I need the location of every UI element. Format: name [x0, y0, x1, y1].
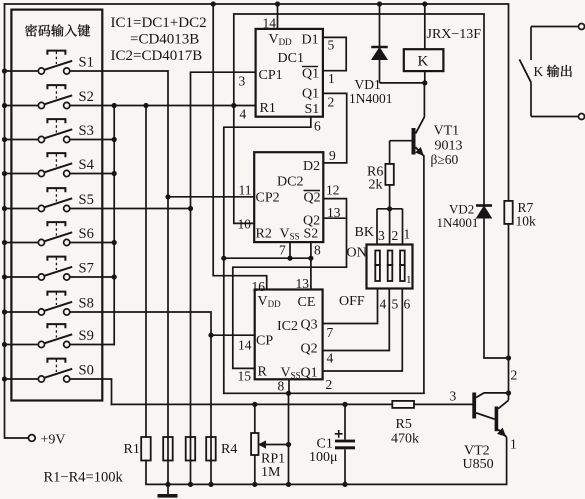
svg-text:15: 15	[238, 369, 252, 384]
diode VD1 1N4001	[371, 4, 425, 83]
node left rail / S9 row	[2, 342, 7, 347]
wire IC2 Vss pin8 down	[288, 379, 290, 393]
switch S7	[5, 257, 73, 281]
node junction reset bus / S3 row	[112, 137, 117, 142]
keypad box	[11, 10, 102, 401]
flip-flop DC1	[256, 29, 323, 117]
svg-text:BK: BK	[355, 225, 374, 240]
svg-text:13: 13	[327, 205, 341, 220]
wire S8 row down to IC2 CP, down to R4	[70, 312, 211, 461]
switch S0	[5, 359, 73, 383]
wire S1 row to CP2 junction, down to R2	[70, 71, 168, 461]
node junction R1 column / S2 row	[143, 103, 148, 108]
svg-text:DC2: DC2	[277, 175, 303, 190]
overline of Q2bar	[304, 190, 321, 192]
wire ground drop to bottom rail	[288, 393, 290, 484]
wire second rail (reset net)	[234, 14, 484, 223]
node junction ground link / DC2 pin7	[287, 256, 292, 261]
switch S5	[5, 188, 73, 211]
switch S1	[5, 51, 73, 75]
node left rail / S1 row	[2, 68, 7, 73]
wire S2 row to DC1 pin 4 (R1)	[70, 105, 256, 107]
wire S0 row down to trigger rail	[70, 379, 112, 404]
wire S9 row to reset bus	[70, 344, 114, 346]
wire DC2 pin8 S2 down to IC2 CE pin13	[310, 242, 312, 289]
wire IC2 pin14 CP to S8/R4 column	[211, 334, 255, 336]
svg-text:6: 6	[404, 297, 411, 312]
svg-text:1: 1	[328, 71, 335, 86]
svg-text:S4: S4	[79, 157, 95, 173]
switch S9	[5, 324, 73, 348]
node junction trigger rail / RP1	[252, 402, 257, 407]
switch S8	[5, 292, 73, 316]
node junction reset rail / S2 row	[231, 103, 236, 108]
node junction R6 / BK bracket	[387, 206, 392, 211]
diode VD2 1N4001	[476, 14, 509, 358]
svg-text:ON: ON	[347, 246, 367, 261]
svg-text:CP: CP	[256, 334, 273, 349]
svg-text:4: 4	[327, 351, 334, 366]
svg-text:β≥60: β≥60	[431, 152, 459, 167]
svg-text:CE: CE	[298, 295, 316, 310]
svg-text:470k: 470k	[391, 432, 419, 447]
svg-text:K: K	[534, 64, 544, 79]
svg-text:9: 9	[329, 148, 336, 163]
node junction ground rail / R4	[208, 482, 213, 487]
svg-text:1: 1	[510, 437, 517, 452]
wire ground bus to VT1 emitter	[224, 392, 424, 394]
svg-text:1: 1	[406, 274, 412, 286]
node junction top rail / VD1	[377, 1, 382, 6]
wire ground link under DC2	[224, 257, 311, 259]
svg-text:K: K	[418, 54, 429, 70]
node junction Vss bus / ground drop	[286, 391, 291, 396]
node left rail / S2 row	[2, 103, 7, 108]
potentiometer RP1 1M	[251, 404, 288, 484]
svg-text:10: 10	[238, 217, 252, 232]
svg-text:3: 3	[450, 389, 457, 404]
node junction reset bus / S2 row	[112, 103, 117, 108]
node junction reset bus / S7 row	[112, 274, 117, 279]
node junction ground rail / RP1	[252, 482, 257, 487]
svg-text:S3: S3	[79, 123, 94, 139]
wire CP1 of DC1 to junction with S5, down to R3	[191, 72, 256, 460]
svg-text:S7: S7	[79, 261, 94, 277]
svg-text:14: 14	[238, 338, 252, 353]
svg-text:S6: S6	[79, 226, 94, 242]
node junction reset bus / S6 row	[112, 240, 117, 245]
svg-text:5: 5	[328, 38, 335, 53]
node left rail / S8 row	[2, 309, 7, 314]
svg-text:R1: R1	[124, 442, 140, 457]
svg-text:16: 16	[252, 279, 266, 294]
svg-text:IC2: IC2	[277, 319, 298, 334]
svg-text:14: 14	[263, 16, 277, 31]
wire IC2 Q3 pin7 to BK pin4	[323, 289, 378, 324]
resistor R4 100k	[206, 437, 216, 461]
transistor VT1 9013	[390, 83, 425, 393]
DIP switch BK	[367, 209, 413, 289]
svg-text:OFF: OFF	[339, 294, 365, 309]
svg-text:13: 13	[296, 276, 310, 291]
switch K output	[519, 24, 584, 120]
svg-text:=CD4013B: =CD4013B	[130, 32, 199, 48]
svg-text:2: 2	[328, 95, 335, 110]
svg-text:1: 1	[404, 227, 411, 242]
svg-text:R5: R5	[396, 417, 412, 432]
node junction top rail / IC2 Vdd wire	[211, 1, 216, 6]
wire Q1 pin2 to D2 pin9	[323, 93, 347, 162]
svg-text:R: R	[258, 365, 268, 380]
svg-text:DC1: DC1	[278, 51, 304, 66]
svg-text:Q1: Q1	[302, 67, 319, 82]
svg-text:8: 8	[278, 379, 285, 394]
svg-text:1N4001: 1N4001	[349, 91, 393, 106]
svg-text:CP1: CP1	[259, 68, 283, 83]
svg-text:4: 4	[380, 297, 387, 312]
node left rail / S5 row	[2, 206, 7, 211]
svg-text:Q1: Q1	[302, 87, 319, 102]
node left rail / S4 row	[2, 171, 7, 176]
wire S4 row to reset bus	[70, 173, 114, 175]
node junction ground link / DC2 pin8	[308, 256, 313, 261]
node junction VT2 collector node	[506, 390, 511, 395]
svg-text:VDD: VDD	[269, 32, 293, 47]
resistor R7 10k	[504, 4, 512, 400]
wire Q2 pin13 stub	[323, 217, 344, 219]
svg-text:S8: S8	[79, 296, 94, 312]
svg-text:Q2: Q2	[301, 342, 318, 357]
wire Q2bar pin12 to IC2 R pin15 loop	[233, 199, 347, 369]
ground	[167, 484, 169, 494]
node junction ground rail / R2	[165, 482, 170, 487]
node junction trigger rail / C1	[342, 402, 347, 407]
svg-text:IC2=CD4017B: IC2=CD4017B	[111, 48, 203, 64]
keypad title 密码输入键	[25, 24, 90, 36]
svg-text:VD1: VD1	[355, 77, 381, 92]
wire IC2 Q2 pin4 to BK pin5	[323, 289, 390, 351]
svg-text:R1: R1	[260, 101, 276, 116]
svg-text:S2: S2	[304, 227, 319, 242]
svg-text:IC1=DC1+DC2: IC1=DC1+DC2	[111, 15, 207, 31]
svg-text:3: 3	[378, 228, 385, 243]
svg-text:D1: D1	[302, 33, 319, 48]
svg-text:4: 4	[240, 107, 247, 122]
svg-text:VT1: VT1	[434, 124, 460, 139]
wire S6 row to reset bus	[70, 242, 114, 244]
node junction VD2 / R7 wire	[506, 355, 511, 360]
svg-text:U850: U850	[463, 457, 494, 472]
svg-text:6: 6	[314, 119, 321, 134]
terminal +9V	[28, 435, 35, 442]
svg-text:5: 5	[392, 297, 399, 312]
switch S3	[5, 119, 73, 142]
wire CP2 of DC2 to S1 column junction	[168, 196, 254, 198]
node junction CP2 line / S1 column	[165, 194, 170, 199]
switch S4	[5, 153, 73, 176]
svg-text:10k: 10k	[516, 214, 537, 229]
node junction top rail / DC1 pin14	[275, 1, 280, 6]
svg-text:S1: S1	[305, 102, 320, 117]
svg-text:7: 7	[279, 243, 286, 258]
relay K JRX-13F	[424, 4, 426, 83]
resistor R5 470k	[392, 401, 414, 408]
svg-text:S0: S0	[79, 363, 94, 379]
capacitor C1 100u	[335, 404, 355, 484]
wire left +9V rail	[5, 4, 29, 438]
node left rail / S0 row	[2, 376, 7, 381]
resistor R2 100k	[163, 437, 173, 461]
svg-text:Q3: Q3	[301, 318, 318, 333]
wire reset bus (S2-S9 column)	[113, 106, 115, 345]
wire DC1 pin14 Vdd from top rail	[277, 4, 279, 29]
svg-text:2: 2	[511, 368, 518, 383]
node junction top rail / relay K	[422, 1, 427, 6]
wire S7 row to reset bus	[70, 276, 114, 278]
wire trigger rail (S0 / C1 / RP1 / R5)	[112, 403, 473, 405]
wire S3 row to reset bus	[70, 139, 114, 141]
svg-text:2k: 2k	[369, 178, 383, 193]
svg-text:R2: R2	[256, 227, 272, 242]
svg-text:S1: S1	[79, 55, 94, 71]
wire IC2 Q1 pin2 to BK pin6	[323, 289, 403, 372]
svg-text:2: 2	[392, 228, 399, 243]
node junction RP1 wiper / ground drop	[286, 442, 291, 447]
svg-text:7: 7	[327, 325, 334, 340]
node left rail / S3 row	[2, 137, 7, 142]
svg-text:S5: S5	[79, 192, 94, 208]
wire D1 pin5 to Q1bar pin1 loop	[323, 37, 346, 70]
svg-text:CP2: CP2	[256, 191, 280, 206]
node left rail / S7 row	[2, 274, 7, 279]
svg-text:R1−R4=100k: R1−R4=100k	[44, 470, 124, 486]
svg-text:D2: D2	[303, 159, 320, 174]
node junction ground rail / C1	[342, 482, 347, 487]
resistor R1 100k	[141, 437, 151, 461]
transistor VT2 U850 darlington	[472, 393, 508, 485]
svg-text:1N4001: 1N4001	[437, 215, 479, 230]
svg-text:R4: R4	[221, 442, 237, 457]
svg-text:VDD: VDD	[258, 294, 282, 309]
svg-text:Q1: Q1	[301, 366, 318, 381]
counter IC2	[255, 290, 323, 380]
svg-text:S2: S2	[79, 89, 94, 105]
node left rail / S6 row	[2, 240, 7, 245]
flip-flop DC2	[254, 152, 323, 242]
node junction ground rail / ground drop	[286, 482, 291, 487]
svg-text:S9: S9	[79, 328, 94, 344]
resistor R6 2k	[385, 141, 393, 209]
svg-text:JRX−13F: JRX−13F	[427, 27, 482, 42]
node junction reset bus / S4 row	[112, 171, 117, 176]
svg-text:12: 12	[326, 183, 340, 198]
switch S6	[5, 222, 73, 245]
wire S5 row to CP1 junction	[70, 208, 191, 210]
wire S1 pin6 of DC1 to ground column	[224, 117, 311, 394]
switch S2	[5, 85, 73, 109]
overline of Q1bar	[302, 66, 318, 68]
resistor R3 100k	[186, 437, 196, 461]
node junction ground link / S1-set column	[221, 256, 226, 261]
node junction S5 row / CP1 column	[188, 206, 193, 211]
svg-text:8: 8	[314, 243, 321, 258]
svg-text:11: 11	[239, 183, 252, 198]
wire top +9V rail	[5, 3, 509, 5]
wire R1 pulldown column	[145, 106, 147, 438]
svg-text:+9V: +9V	[41, 433, 66, 448]
svg-text:VSS: VSS	[280, 227, 300, 242]
svg-text:Q2: Q2	[304, 191, 321, 206]
wire IC2 pin16 Vdd from top rail	[213, 4, 267, 290]
svg-text:2: 2	[326, 377, 333, 392]
node junction IC2 CP line / R4 column	[208, 333, 213, 338]
wire DC2 pin7 Vss stub	[289, 242, 291, 258]
node junction ground rail / R3	[188, 482, 193, 487]
wire ground rail	[146, 461, 507, 485]
svg-text:3: 3	[239, 74, 246, 89]
node junction VD1 / relay coil	[422, 80, 427, 85]
svg-text:100μ: 100μ	[309, 450, 338, 465]
svg-text:1M: 1M	[261, 465, 281, 480]
